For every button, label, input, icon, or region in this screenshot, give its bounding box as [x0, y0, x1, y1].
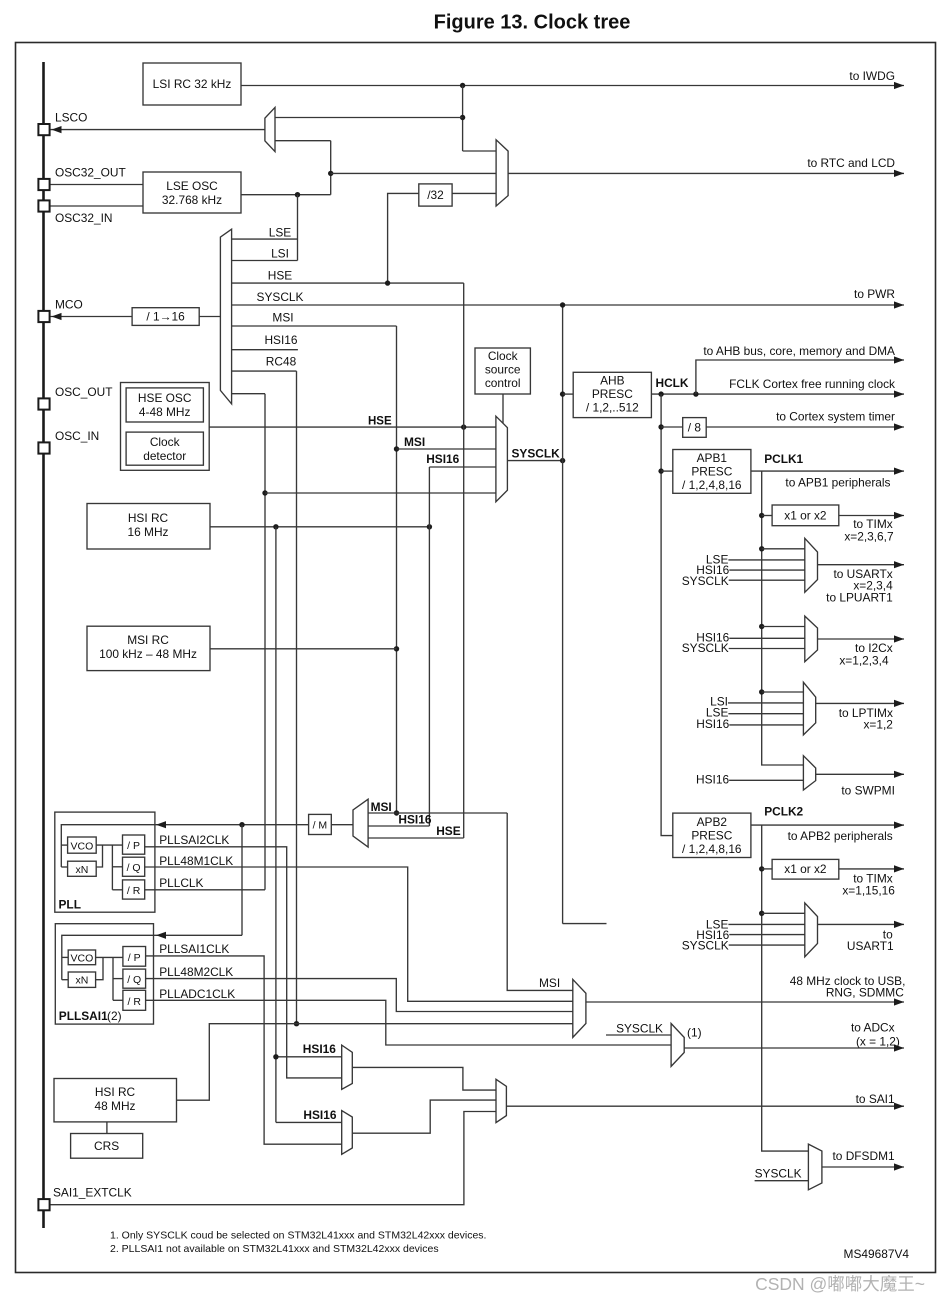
mux SYSCLK select — [496, 416, 508, 502]
wire VCO out — [96, 844, 122, 846]
wire HCLK line — [651, 376, 904, 394]
mux USARTx select — [805, 538, 818, 592]
wire M mux out — [331, 824, 353, 826]
arrow to AHB bus — [703, 344, 904, 364]
box HSI RC 48 MHz — [54, 1079, 177, 1122]
junction LSI branch — [460, 115, 465, 120]
wire LSI to LSCO mux — [275, 117, 463, 119]
wire PLLADC1CLK — [146, 987, 672, 1045]
mux DFSDM select — [808, 1144, 822, 1190]
junction MSI sysclk — [394, 446, 399, 451]
svg-text:MSI: MSI — [539, 976, 560, 990]
wire OSC32_OUT lead — [50, 184, 143, 186]
wire HSI16 to sai mux2 — [276, 1108, 342, 1122]
mux USART1 select — [805, 903, 818, 957]
pin OSC32_OUT — [38, 166, 125, 191]
node HSI16 lptim — [696, 717, 803, 731]
mux RTC select — [496, 140, 508, 206]
junction SYSCLK pwr — [560, 302, 565, 307]
wire PCLK1 to I2C mux — [762, 626, 805, 628]
node SYSCLK usart1 — [682, 939, 805, 953]
svg-text:to DFSDM1: to DFSDM1 — [832, 1149, 894, 1163]
wire pll divider riser — [111, 845, 113, 890]
pin MCO — [38, 298, 82, 323]
node HSI16 usartx — [696, 563, 805, 577]
note 2 — [110, 1243, 439, 1255]
arrow to LPTIMx — [839, 700, 904, 732]
arrow into MCO pin — [52, 313, 62, 320]
wire to x1x2 apb2 — [762, 868, 772, 870]
junction MSI rc — [394, 646, 399, 651]
node LSE usartx — [706, 553, 805, 567]
svg-text:VCO: VCO — [71, 841, 94, 853]
wire USART1 out — [818, 923, 905, 925]
svg-text:PLL48M2CLK: PLL48M2CLK — [159, 965, 233, 979]
label adc note 1 — [687, 1026, 702, 1040]
wire I2C out — [818, 638, 905, 640]
svg-text:MCO: MCO — [55, 298, 83, 312]
node HSI16 i2c — [696, 631, 805, 645]
wire SYSCLK vertical — [562, 305, 564, 924]
pin OSC32_IN — [38, 200, 112, 225]
wire HSI RC16 output — [210, 526, 429, 528]
wire PLLSAI2CLK — [145, 833, 342, 1078]
svg-text:LSE: LSE — [269, 225, 292, 239]
svg-text:CSDN @嘟嘟大魔王~: CSDN @嘟嘟大魔王~ — [755, 1274, 925, 1294]
svg-text:xN: xN — [75, 975, 88, 987]
arrow to APB1 peripherals — [785, 468, 904, 490]
box APB2 PRESC — [673, 813, 751, 857]
box /Q pllsai1 — [123, 969, 146, 988]
svg-text:LSCO: LSCO — [55, 111, 87, 125]
wire HCLK vertical — [661, 394, 673, 835]
svg-text:PLL: PLL — [59, 898, 81, 912]
node LSI row — [232, 247, 298, 261]
box APB1 PRESC — [673, 450, 751, 494]
box LSE OSC 32.768 kHz — [143, 172, 241, 213]
junction HSI16 sai — [273, 1054, 278, 1059]
svg-text:xN: xN — [75, 864, 88, 876]
arrow to APB2 peripherals — [788, 822, 904, 844]
wire PCLK1 vertical — [762, 471, 804, 765]
wire 48M collect — [177, 1024, 573, 1100]
wire PLLCLK to MCO mux — [232, 393, 265, 395]
junction HSI16 right — [427, 524, 432, 529]
svg-text:OSC_IN: OSC_IN — [55, 429, 99, 443]
wire control to mux — [502, 394, 504, 423]
box VCO pll — [68, 837, 97, 853]
svg-text:x=1,2,3,4: x=1,2,3,4 — [839, 654, 889, 668]
box /32 divider — [419, 184, 452, 206]
title Figure 13. Clock tree — [434, 12, 631, 34]
box CRS — [71, 1134, 143, 1159]
junction HCLK div8 — [658, 424, 663, 429]
wire HSI16 vertical right — [428, 467, 430, 826]
label HSE at M mux — [436, 824, 461, 838]
svg-text:PRESC: PRESC — [691, 465, 732, 479]
svg-text:OSC32_OUT: OSC32_OUT — [55, 166, 126, 180]
svg-text:SYSCLK: SYSCLK — [682, 641, 729, 655]
node SYSCLK i2c — [682, 641, 805, 655]
wire HSI16 to M mux — [368, 813, 432, 827]
svg-text:x=1,2: x=1,2 — [863, 718, 893, 732]
svg-text:PLLSAI1CLK: PLLSAI1CLK — [159, 942, 229, 956]
box LSI RC 32 kHz — [143, 63, 241, 105]
svg-text:/ Q: / Q — [127, 862, 141, 874]
svg-text:HSI16: HSI16 — [303, 1108, 336, 1122]
node HSI16 usart1 — [696, 928, 805, 942]
svg-text:x1 or x2: x1 or x2 — [784, 862, 827, 876]
wire to x1x2 apb1 — [762, 515, 772, 517]
svg-text:to IWDG: to IWDG — [849, 69, 895, 83]
svg-text:HSI RC: HSI RC — [95, 1085, 136, 1099]
wire MCO output — [50, 316, 132, 318]
svg-text:control: control — [485, 376, 521, 390]
wire HSI48 to CRS — [106, 1122, 108, 1134]
wire LSI to IWDG — [241, 85, 904, 87]
wire RTC output — [508, 172, 904, 174]
wire LSE out — [241, 194, 331, 196]
svg-text:HSI16: HSI16 — [696, 717, 729, 731]
node HSE row — [232, 269, 464, 284]
arrow to USART1 — [847, 921, 904, 953]
svg-text:to RTC and LCD: to RTC and LCD — [807, 156, 895, 170]
arrow to DFSDM1 — [832, 1149, 904, 1171]
wire PLLSAI1CLK — [146, 942, 342, 1144]
svg-text:SYSCLK: SYSCLK — [682, 574, 729, 588]
svg-text:1. Only SYSCLK coud be selecte: 1. Only SYSCLK coud be selected on STM32… — [110, 1230, 486, 1242]
wire MSI drop to 48M mux — [507, 813, 573, 990]
junction HCLK ahbbus — [693, 391, 698, 396]
svg-text:MSI: MSI — [371, 800, 392, 814]
wire PLLCLK riser — [264, 394, 266, 890]
svg-text:to ADCx: to ADCx — [851, 1021, 895, 1035]
node SYSCLK adc — [606, 1022, 671, 1036]
arrow to TIMx apb1 — [844, 512, 904, 544]
svg-text:MSI: MSI — [404, 435, 425, 449]
arrow into PLL — [156, 821, 166, 828]
wire PLL48M1CLK — [145, 854, 573, 1001]
wire SWPMI out — [816, 773, 904, 775]
wire TIMx apb1 out — [839, 515, 904, 517]
svg-text:PLLSAI1: PLLSAI1 — [59, 1009, 108, 1023]
box AHB PRESC — [573, 372, 651, 417]
box x1 or x2 apb1 — [772, 505, 839, 526]
junction PCLK1 i2c — [759, 624, 764, 629]
svg-text:(2): (2) — [107, 1009, 122, 1023]
svg-text:detector: detector — [143, 449, 186, 463]
box /M divider — [309, 814, 332, 834]
box /P pll — [123, 835, 145, 854]
wire AHB bus branch — [696, 360, 904, 394]
svg-text:/ P: / P — [128, 952, 141, 964]
svg-text:SYSCLK: SYSCLK — [616, 1022, 663, 1036]
wire VCO input sai — [62, 956, 68, 958]
junction HCLK down — [658, 391, 663, 396]
wire SAI output — [506, 1105, 904, 1107]
wire xN return — [61, 866, 67, 868]
svg-text:HSI16: HSI16 — [264, 333, 297, 347]
svg-text:to LPUART1: to LPUART1 — [826, 591, 893, 605]
svg-text:MS49687V4: MS49687V4 — [844, 1247, 910, 1261]
wire to /R sai — [113, 999, 123, 1001]
wire VCO input — [61, 844, 67, 846]
junction LSI-IWDG — [460, 83, 465, 88]
wire sai mux2 out — [352, 1100, 496, 1133]
junction RC48 48M line — [294, 1021, 299, 1026]
pin SAI1_EXTCLK — [38, 1186, 131, 1211]
svg-text:PLL48M1CLK: PLL48M1CLK — [159, 854, 233, 868]
wire MSI vertical — [396, 326, 398, 813]
wire /8 output — [706, 426, 904, 428]
wire PLLSAI1 input net — [62, 935, 242, 979]
svg-text:MSI: MSI — [272, 311, 293, 325]
svg-text:SYSCLK: SYSCLK — [682, 939, 729, 953]
wire DFSDM output — [822, 1166, 904, 1168]
wire LSE riser — [330, 141, 332, 195]
box /R pllsai1 — [123, 990, 146, 1010]
box x1 or x2 apb2 — [772, 859, 839, 879]
svg-text:/ R: / R — [127, 885, 141, 897]
svg-text:PRESC: PRESC — [592, 387, 633, 401]
arrow to RTC and LCD — [807, 156, 904, 177]
svg-text:/ 1→16: / 1→16 — [146, 310, 185, 324]
svg-text:RNG, SDMMC: RNG, SDMMC — [826, 986, 904, 1000]
svg-text:/ 1,2,4,8,16: / 1,2,4,8,16 — [682, 478, 742, 492]
svg-text:to PWR: to PWR — [854, 287, 895, 301]
label MSI at 48M mux — [539, 976, 560, 990]
box xN pll — [68, 861, 97, 876]
box HSE OSC outer — [121, 383, 210, 471]
arrow to SWPMI — [841, 771, 904, 798]
svg-text:HSI16: HSI16 — [398, 813, 431, 827]
mux M select — [353, 799, 368, 847]
svg-text:x1 or x2: x1 or x2 — [784, 509, 827, 523]
wire PCLK1 line — [751, 452, 904, 471]
wire SAI1_EXTCLK lead — [50, 1112, 496, 1205]
junction MSI at M mux — [394, 810, 399, 815]
wire OSC32_IN lead — [50, 205, 143, 207]
svg-text:PCLK2: PCLK2 — [764, 805, 803, 819]
svg-text:100 kHz – 48 MHz: 100 kHz – 48 MHz — [99, 647, 197, 661]
mux SAI1 select — [496, 1079, 506, 1122]
junction LSE-RTC — [328, 171, 333, 176]
svg-text:to Cortex system timer: to Cortex system timer — [776, 410, 895, 424]
svg-text:/ Q: / Q — [127, 974, 141, 986]
wire HSE vertical — [463, 283, 465, 838]
svg-text:PLLSAI2CLK: PLLSAI2CLK — [159, 833, 229, 847]
svg-text:HSI16: HSI16 — [696, 773, 729, 787]
watermark CSDN — [755, 1274, 925, 1294]
pin LSCO — [38, 111, 87, 136]
svg-text:16 MHz: 16 MHz — [128, 525, 169, 539]
wire PLLSAI1 input drop — [241, 825, 243, 936]
wire RC48 vertical — [296, 371, 298, 1024]
wire LSCO output — [50, 129, 265, 131]
arrow to USARTx — [826, 561, 904, 604]
arrow to IWDG — [849, 69, 904, 89]
wire to /R pll — [112, 889, 122, 891]
svg-text:LSE OSC: LSE OSC — [166, 179, 218, 193]
node RC48 row — [232, 355, 297, 372]
svg-text:HSE: HSE — [268, 269, 293, 283]
box MSI RC 100 kHz - 48 MHz — [87, 626, 210, 670]
box VCO pllsai1 — [68, 950, 95, 965]
svg-text:/ P: / P — [127, 840, 140, 852]
svg-text:VCO: VCO — [71, 953, 94, 965]
svg-text:AHB: AHB — [600, 374, 625, 388]
svg-text:Figure 13. Clock tree: Figure 13. Clock tree — [434, 12, 631, 34]
mux SWPMI select — [803, 756, 815, 790]
box Clock detector — [126, 432, 203, 465]
box HSI RC 16 MHz — [87, 504, 210, 550]
svg-text:SYSCLK: SYSCLK — [257, 290, 304, 304]
wire MCO mux to divider — [199, 316, 220, 318]
box / 1-16 divider — [132, 308, 199, 326]
mux I2Cx select — [805, 616, 818, 662]
svg-text:HSE: HSE — [368, 416, 392, 428]
mux SAI HSI16 upper — [342, 1045, 353, 1089]
svg-text:to APB2 peripherals: to APB2 peripherals — [788, 829, 893, 843]
wire /32 to RTC mux — [452, 192, 496, 194]
svg-text:/ 1,2,4,8,16: / 1,2,4,8,16 — [682, 842, 742, 856]
svg-text:HSE: HSE — [436, 824, 461, 838]
svg-text:HSI16: HSI16 — [426, 452, 459, 466]
arrow FCLK — [729, 377, 904, 398]
wire sai divider riser — [112, 957, 114, 1000]
wire LSI to RTC mux — [463, 150, 497, 152]
junction PCLK2 usart1 — [759, 911, 764, 916]
wire LSI drop — [462, 86, 464, 152]
svg-text:x=1,15,16: x=1,15,16 — [842, 884, 895, 898]
svg-text:/ R: / R — [127, 996, 141, 1008]
wire HSI16 to sai mux1 — [276, 1042, 342, 1057]
wire LPTIM out — [816, 702, 904, 704]
svg-text:OSC_OUT: OSC_OUT — [55, 385, 112, 399]
wire to APB1 presc — [661, 470, 673, 472]
svg-text:to AHB bus, core, memory and D: to AHB bus, core, memory and DMA — [703, 344, 895, 358]
wire to /8 — [661, 426, 683, 428]
wire HSI16 vertical left — [275, 527, 277, 1123]
box /Q pll — [123, 857, 145, 876]
svg-text:SYSCLK: SYSCLK — [512, 447, 561, 461]
junction HSE drop — [461, 424, 466, 429]
svg-text:(1): (1) — [687, 1026, 702, 1040]
svg-text:to SAI1: to SAI1 — [856, 1092, 895, 1106]
wire PLLCLK row — [145, 876, 265, 890]
wire HSE to M mux — [368, 837, 464, 839]
svg-text:RC48: RC48 — [266, 355, 297, 369]
node MSI row — [232, 311, 397, 327]
box HSE OSC 4-48 MHz — [126, 388, 203, 422]
svg-text:48 MHz: 48 MHz — [95, 1099, 136, 1113]
svg-text:source: source — [485, 363, 521, 377]
svg-text:HSE OSC: HSE OSC — [138, 391, 192, 405]
svg-text:Clock: Clock — [488, 349, 518, 363]
svg-text:/ M: / M — [313, 820, 328, 832]
note 1 — [110, 1230, 486, 1242]
arrow to ADCx — [851, 1021, 904, 1052]
svg-text:to APB1 peripherals: to APB1 peripherals — [785, 476, 890, 490]
mux ADC select — [671, 1024, 684, 1067]
node LSI lptim — [710, 695, 803, 709]
wire PLL48M2CLK — [146, 965, 573, 1012]
node SYSCLK row to PWR — [232, 290, 904, 305]
pin OSC_OUT — [38, 385, 112, 410]
svg-text:SYSCLK: SYSCLK — [755, 1167, 802, 1181]
wire 48M output — [586, 1001, 904, 1003]
svg-text:to SWPMI: to SWPMI — [841, 784, 895, 798]
wire MSI row to M mux — [368, 800, 507, 814]
wire PCLK2 to USART1 mux — [762, 912, 805, 914]
svg-text:PCLK1: PCLK1 — [764, 452, 803, 466]
arrow to PWR — [854, 287, 904, 309]
pin OSC_IN — [38, 429, 99, 454]
box /R pll — [123, 880, 145, 899]
wire MSI to SYSCLK mux — [397, 435, 496, 449]
wire PCLK2 line — [751, 805, 904, 826]
svg-text:HCLK: HCLK — [656, 376, 689, 390]
arrow to TIMx apb2 — [842, 865, 904, 897]
svg-text:APB1: APB1 — [697, 451, 728, 465]
node LSE usart1 — [706, 918, 805, 932]
wire HSE to /32 — [388, 193, 419, 283]
svg-text:/32: /32 — [427, 188, 444, 202]
node LSE row — [232, 225, 298, 239]
svg-text:SAI1_EXTCLK: SAI1_EXTCLK — [53, 1186, 132, 1200]
svg-text:USART1: USART1 — [847, 939, 894, 953]
arrow into LSCO pin — [52, 126, 62, 133]
wire USARTx out — [818, 564, 905, 566]
mux MCO select — [220, 229, 231, 404]
svg-text:/ 8: / 8 — [688, 421, 702, 435]
arrow to I2Cx — [839, 635, 904, 667]
wire PLLCLK to SYSCLK mux — [265, 492, 496, 494]
mux LSCO select — [265, 107, 275, 151]
junction LSE branch — [295, 192, 300, 197]
wire to /Q pll — [112, 866, 122, 868]
svg-text:(x = 1,2): (x = 1,2) — [856, 1035, 900, 1049]
box /8 divider — [683, 418, 707, 438]
mux LPTIMx select — [803, 682, 815, 735]
wire sai mux1 out — [352, 1067, 496, 1090]
wire HSE OSC output — [209, 426, 496, 428]
wire LSE to RTC mux — [331, 172, 496, 174]
mux 48M select — [573, 979, 586, 1037]
svg-text:LSI: LSI — [271, 247, 289, 261]
junction PCLK1 tim — [759, 513, 764, 518]
svg-text:HSI RC: HSI RC — [128, 511, 169, 525]
wire to /Q sai — [113, 978, 123, 980]
svg-text:APB2: APB2 — [697, 815, 728, 829]
label HSE bold — [368, 416, 392, 428]
wire xN feedback sai — [96, 957, 103, 979]
node HSI16 row — [232, 333, 298, 350]
junction PLLCLK branch — [262, 490, 267, 495]
arrow to Cortex system timer — [776, 410, 904, 431]
box PLL outer — [55, 812, 155, 912]
svg-text:CRS: CRS — [94, 1139, 119, 1153]
svg-text:/ 1,2,..512: / 1,2,..512 — [586, 401, 639, 415]
label MS49687V4 — [844, 1247, 910, 1261]
box xN pllsai1 — [68, 972, 95, 987]
svg-text:x=2,3,6,7: x=2,3,6,7 — [844, 530, 894, 544]
junction SYSCLK out — [560, 458, 565, 463]
svg-text:LSI RC 32 kHz: LSI RC 32 kHz — [153, 77, 232, 91]
junction SYSCLK ahb — [560, 391, 565, 396]
node LSE lptim — [706, 706, 803, 720]
node HSI16 swpmi — [696, 773, 803, 787]
